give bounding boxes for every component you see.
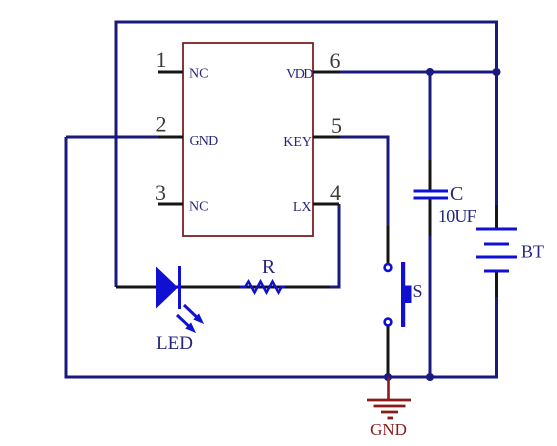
svg-text:VDD: VDD [286,67,313,82]
IC U1 body [183,43,313,236]
wire capacitor branch lower [429,234,432,377]
junction dot pin6/cap [426,68,434,76]
svg-text:GND: GND [370,420,407,439]
junction dot switch/bottom rail [384,373,392,381]
battery BT plate short lower [484,270,509,273]
resistor R zigzag [240,282,285,293]
ground stem [387,377,390,400]
capacitor C top plate [414,190,449,193]
pin 4 stub [313,203,339,206]
svg-text:6: 6 [330,48,341,73]
wire bottom rail GND net [66,137,497,377]
svg-text:NC: NC [189,67,208,82]
svg-text:BT: BT [521,242,544,262]
svg-text:4: 4 [330,180,341,205]
wire pin6 VDD run [338,71,497,74]
svg-text:S: S [413,281,423,301]
svg-text:3: 3 [155,180,166,205]
svg-text:GND: GND [190,134,219,149]
pin 1 stub [158,71,183,74]
svg-text:NC: NC [189,200,208,215]
pin 3 stub [158,203,183,206]
pin 5 stub [313,136,340,139]
svg-text:5: 5 [331,113,342,138]
wire capacitor stub upper [429,160,432,190]
svg-text:LX: LX [293,200,312,215]
wire top rail VDD net [116,22,497,287]
battery BT plate short upper [484,243,509,246]
wire switch stub upper [387,226,390,264]
ground bar 3 [381,411,398,414]
svg-text:2: 2 [156,112,167,137]
wire battery stub lower [495,271,498,297]
ground bar 1 [367,399,411,402]
svg-text:1: 1 [156,47,167,72]
LED D1 triangle [156,267,178,309]
wire capacitor stub lower [429,199,432,236]
wire LED resistor row [116,286,330,289]
ground bar 4 [388,417,394,420]
wire pin2 GND run [66,136,160,139]
switch S actuator knob [405,286,412,304]
wire pin4 LX drop [328,204,339,287]
junction dot cap/bottom rail [426,373,434,381]
svg-text:KEY: KEY [283,135,312,150]
svg-text:10UF: 10UF [438,206,477,226]
pin 6 stub [313,71,340,74]
wire pin5 KEY run [338,137,388,228]
switch S actuator bar [401,262,405,327]
battery BT plate long top [476,228,517,231]
wire switch stub lower [387,326,390,377]
capacitor C bottom plate [414,197,449,200]
battery BT plate long bottom [476,256,517,259]
svg-text:C: C [450,183,463,205]
junction dot pin6/battery rail [493,68,501,76]
pin 2 stub [158,136,183,139]
switch S bottom contact circle [385,319,392,326]
LED D1 arrow 2 [177,315,195,332]
wire battery stub upper [495,205,498,229]
ground bar 2 [374,405,406,408]
LED D1 cathode bar [178,266,181,309]
switch S top contact circle [385,264,392,271]
wire capacitor branch upper [429,72,432,162]
svg-text:R: R [262,256,276,278]
svg-text:LED: LED [156,333,193,354]
LED D1 arrow 1 [184,305,203,323]
